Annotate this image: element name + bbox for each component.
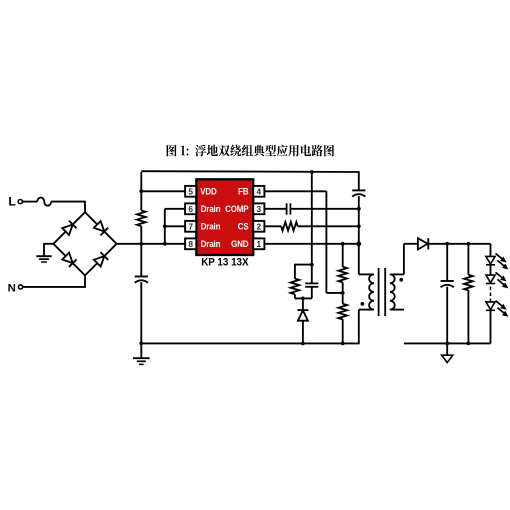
node dot outres bottom [467, 342, 471, 346]
wire top line [141, 170, 358, 173]
wire GND pin to GND net [264, 243, 358, 245]
LED D9 arrows [496, 301, 509, 317]
terminal N node circle [19, 285, 23, 289]
pin box 1 (right) [253, 238, 264, 249]
startup resistor R1 [137, 211, 146, 227]
svg-text:7: 7 [188, 221, 193, 231]
wire outres top stub [467, 244, 469, 275]
node dot drain vertical/bus [163, 242, 167, 246]
feedback divider resistor R5 (lower) [338, 304, 347, 320]
node dot VDD/vertical [139, 189, 143, 193]
wire snubber vertical [311, 172, 313, 265]
pin label Drain (7) [201, 222, 221, 232]
wire divider bottom to rail [342, 319, 344, 343]
wire bottom rail primary [141, 342, 358, 344]
wire outres bottom stub [467, 290, 469, 343]
node dot snubber/rail [301, 342, 305, 346]
svg-text:FB: FB [238, 187, 249, 197]
pin label CS [238, 222, 249, 232]
ground at bridge [36, 256, 51, 262]
node dot divider/rail [341, 342, 345, 346]
wire LED string bottom [490, 310, 492, 343]
svg-text:COMP: COMP [225, 204, 248, 214]
node dot snubber top [310, 263, 314, 267]
svg-text:Drain: Drain [201, 239, 221, 249]
wire bridge edge left-bottom [53, 244, 85, 276]
svg-text:4: 4 [256, 186, 261, 196]
wire divider mid [342, 282, 344, 303]
node dot left vertical/bus [139, 242, 143, 246]
wire VDD pin stub [141, 190, 185, 192]
snubber diode D5 (cathode up) [297, 310, 308, 321]
wire drain vertical [164, 209, 166, 244]
IC part number KP1313X [201, 256, 249, 268]
svg-text:N: N [8, 283, 16, 295]
VDD capacitor C4 (polarized) [352, 190, 365, 196]
pin box 5 (left) [185, 186, 196, 197]
svg-text:CS: CS [238, 222, 249, 232]
svg-text:3: 3 [256, 204, 261, 214]
wire drain pin 7 stub [165, 225, 185, 227]
transformer secondary phase dot [399, 278, 403, 282]
title text: 图 1: 浮地双绕组典型应用电路图 [167, 145, 334, 157]
pin box 4 (right) [253, 186, 264, 197]
wire secondary top to diode [404, 244, 418, 275]
wire snubber cap bottom [311, 287, 313, 299]
input bulk capacitor C1 (polarized) [135, 277, 148, 283]
output floating ground arrow [442, 343, 453, 362]
node dot GND/divider top [341, 242, 345, 246]
node dot pin7/drain vertical [163, 224, 167, 228]
wire GND net vertical [358, 196, 360, 274]
node dot COMP/GND net [357, 207, 361, 211]
output capacitor C5 (polarized) [441, 281, 454, 287]
wire COMP to cap [264, 208, 286, 210]
IC U1 KP1313X body [196, 179, 253, 255]
wire LED1-LED2 [490, 265, 492, 275]
wire output top rail [428, 243, 490, 245]
transformer T1 core [379, 268, 386, 316]
LED D9 [486, 302, 495, 310]
svg-text:L: L [8, 195, 16, 209]
svg-text:Drain: Drain [201, 222, 221, 232]
wire left vertical upper [140, 172, 142, 211]
wire L to fuse [22, 201, 37, 203]
pin box 2 (right) [253, 221, 264, 232]
CS resistor R2 [281, 222, 298, 231]
svg-text:1: 1 [256, 239, 261, 249]
bridge diode D3 (left-bottom) [62, 253, 76, 267]
output diode D6 [418, 238, 428, 249]
wire rail up to primary [358, 310, 360, 345]
pin label Drain (6) [201, 204, 221, 214]
wire outcap bottom stub [446, 287, 448, 344]
bridge diode D1 (left-top) [62, 221, 76, 235]
node dot snubber bottom mid [301, 297, 305, 301]
wire COMP cap to GND net [291, 208, 359, 210]
wire fuse to bridge top [51, 201, 85, 212]
feedback divider resistor R4 (upper) [338, 267, 347, 283]
LED D8 [486, 275, 495, 283]
wire top line corner to VDD cap [358, 171, 360, 190]
svg-text:5: 5 [188, 186, 193, 196]
wire outcap top stub [446, 244, 448, 281]
pin label Drain (8) [201, 239, 221, 249]
wire bridge left corner to ground [44, 243, 53, 256]
wire startup R to bus [140, 226, 142, 244]
COMP capacitor C2 [287, 203, 291, 214]
wire FB to divider [264, 191, 342, 293]
wire input cap to rail [140, 282, 142, 343]
transformer primary phase dot [361, 302, 365, 306]
pin box 3 (right) [253, 203, 264, 214]
svg-text:KP 13 13X: KP 13 13X [201, 256, 249, 268]
node dot GND/GND net [356, 241, 361, 246]
snubber resistor R3 [291, 279, 300, 295]
wire snubber top branch [295, 264, 312, 279]
pin box 8 (left) [185, 238, 196, 249]
wire CS resistor to GND net [298, 225, 359, 227]
bridge diode D4 (bottom-right) [94, 252, 108, 266]
terminal N label [8, 283, 16, 295]
fuse F1 [37, 198, 51, 206]
terminal L label [8, 195, 16, 209]
pin box 7 (left) [185, 221, 196, 232]
bridge diode D2 (top-right) [94, 221, 108, 235]
output resistor R6 [464, 275, 473, 291]
wire snubber mid to diode [302, 298, 304, 310]
wire divider top stub [342, 244, 344, 267]
svg-text:8: 8 [188, 239, 193, 249]
wire dashed (more LEDs) [490, 287, 492, 302]
svg-text:6: 6 [188, 204, 193, 214]
wire snubber R bottom [295, 294, 312, 298]
wire LED string top [490, 244, 492, 257]
LED D7 [486, 256, 495, 264]
pin label VDD [200, 187, 217, 197]
node dot outres top [467, 242, 471, 246]
wire drain pin 6 stub [165, 208, 185, 210]
wire bus to input cap [140, 244, 142, 277]
node dot outcap top [445, 242, 449, 246]
node dot top line/snubber [310, 170, 314, 174]
wire bridge edge bottom-right [85, 244, 117, 276]
node dot outcap bottom [445, 342, 449, 346]
primary ground symbol [133, 343, 150, 364]
snubber capacitor C3 [305, 283, 318, 286]
wire snubber cap stub [311, 265, 313, 284]
wire snubber diode to rail [302, 321, 304, 344]
node dot CS/GND net [357, 224, 361, 228]
wire bridge edge top-right [85, 212, 117, 244]
pin box 6 (left) [185, 203, 196, 214]
pin label COMP [225, 204, 248, 214]
wire CS to resistor [264, 225, 281, 227]
wire bridge edge left-top [53, 212, 85, 244]
terminal L node circle [18, 200, 22, 204]
node dot FB/divider mid [341, 291, 345, 295]
transformer T1 secondary winding [390, 274, 404, 309]
svg-text:GND: GND [231, 239, 249, 249]
svg-text:VDD: VDD [200, 187, 217, 197]
pin label GND [231, 239, 249, 249]
pin label FB [238, 187, 249, 197]
node dot input cap/rail [139, 342, 143, 346]
svg-text:2: 2 [256, 221, 261, 231]
LED D7 arrows [496, 253, 509, 269]
wire N to bridge bottom [23, 275, 85, 287]
wire bridge right corner to bus [117, 243, 186, 245]
LED D8 arrows [496, 272, 509, 288]
transformer T1 primary winding [359, 274, 374, 309]
svg-text:Drain: Drain [201, 204, 221, 214]
wire output bottom rail [404, 342, 491, 344]
